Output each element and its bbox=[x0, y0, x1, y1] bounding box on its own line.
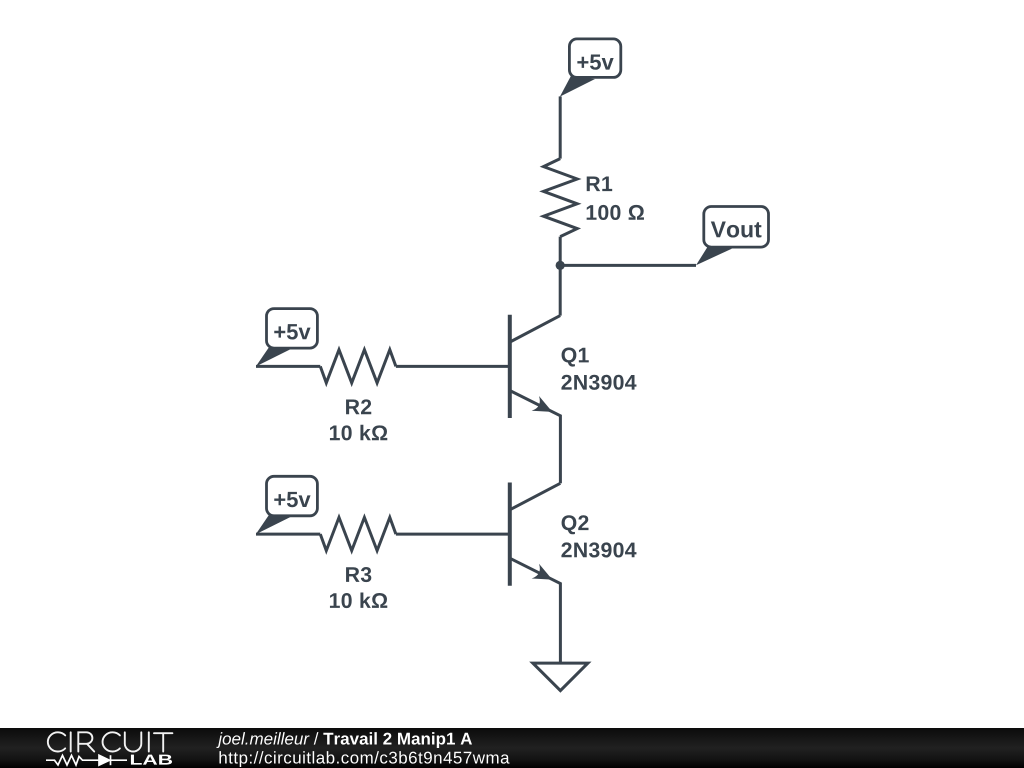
net flag Vout label bbox=[711, 221, 762, 237]
transistor Q2 collector lead bbox=[510, 483, 560, 509]
wire node to Q1 collector bbox=[559, 265, 562, 315]
net flag V3 +5v (R3 row) box bbox=[267, 476, 318, 516]
ground symbol bbox=[533, 663, 588, 691]
transistor Q1 emitter arrow bbox=[532, 396, 553, 412]
net flag V3 +5v (R3 row) beak bbox=[256, 514, 291, 534]
CircuitLab logo CIRCUIT bbox=[48, 732, 173, 751]
net flag V1 +5v (top) beak bbox=[560, 76, 595, 96]
R3 label bbox=[346, 567, 371, 582]
net flag Vout box bbox=[704, 207, 769, 248]
net flag V1 +5v (top) box bbox=[569, 39, 620, 78]
net flag V2 +5v (R2 row) beak bbox=[256, 347, 291, 367]
R3 value 10 kΩ bbox=[330, 592, 387, 608]
wire R2 to Q1 base bbox=[396, 365, 510, 368]
net flag V2 +5v label bbox=[274, 324, 310, 339]
transistor Q2 emitter lead bbox=[510, 558, 560, 663]
footer credit line bbox=[216, 732, 472, 748]
wire +5v to R2 bbox=[256, 365, 320, 368]
footer bar bbox=[0, 728, 1024, 768]
node junction dot bbox=[556, 261, 565, 270]
wire R3 to Q2 base bbox=[396, 533, 510, 536]
net flag V3 +5v label bbox=[274, 492, 310, 507]
wire node to Vout bbox=[560, 264, 696, 267]
net flag Vout beak bbox=[696, 247, 732, 265]
R2 value 10 kΩ bbox=[330, 425, 387, 441]
R1 value 100 Ω bbox=[587, 205, 644, 220]
footer url bbox=[219, 751, 509, 767]
resistor R1 bbox=[544, 159, 578, 237]
transistor Q1 collector lead bbox=[510, 316, 560, 342]
transistor Q2 base bar bbox=[508, 483, 512, 586]
transistor Q2 emitter arrow bbox=[532, 564, 553, 580]
transistor Q1 emitter lead bbox=[510, 391, 560, 450]
net flag V1 +5v (top) label bbox=[577, 54, 613, 69]
resistor R3 bbox=[320, 517, 396, 550]
transistor Q1 base bar bbox=[508, 315, 512, 418]
net flag V2 +5v (R2 row) box bbox=[267, 309, 318, 349]
wire Q1 emitter to Q2 collector bbox=[559, 450, 562, 484]
Q1 type 2N3904 bbox=[561, 375, 636, 390]
Q2 label bbox=[562, 515, 589, 534]
CircuitLab logo LAB bbox=[131, 755, 172, 765]
R1 label bbox=[587, 176, 612, 191]
wire R1 to node bbox=[559, 237, 562, 266]
resistor R2 bbox=[320, 350, 396, 383]
wire +5v to R3 bbox=[256, 533, 320, 536]
Q1 label bbox=[562, 348, 589, 367]
Q2 type 2N3904 bbox=[561, 542, 636, 557]
R2 label bbox=[346, 399, 371, 414]
CircuitLab logo resistor-diode glyph bbox=[46, 755, 127, 765]
wire +5v to R1 bbox=[559, 96, 562, 158]
